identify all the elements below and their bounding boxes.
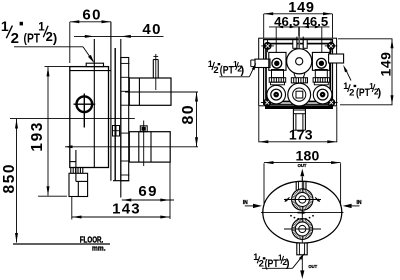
- svg-text:): ): [377, 87, 381, 99]
- svg-text:143: 143: [112, 200, 141, 217]
- leader to left inlet (top view): [219, 63, 256, 77]
- dimension 193 (body height): [29, 67, 70, 197]
- svg-text:180: 180: [296, 148, 320, 164]
- dimension 180: [264, 148, 341, 206]
- svg-text:1: 1: [208, 59, 213, 69]
- svg-text:1: 1: [343, 81, 348, 91]
- temperature pointer: [298, 211, 307, 215]
- front view vertical center line: [301, 177, 303, 256]
- upper knob limit stop left: [284, 197, 289, 202]
- top view body: [259, 38, 337, 106]
- svg-text:2: 2: [46, 29, 53, 44]
- wall anchor detail: [113, 126, 120, 137]
- left valve seat circle: [267, 85, 286, 104]
- mounting tab on body top: [86, 63, 103, 66]
- label IN right with arrow: [343, 200, 362, 208]
- upper outlet body (side view): [129, 78, 171, 105]
- label 1/2 inch PT (side view): [1, 18, 57, 47]
- label OUT (bottom): [308, 264, 317, 269]
- dimension 143: [72, 197, 170, 220]
- label 1/2 inch PT (front view): [253, 252, 290, 270]
- svg-text:40: 40: [142, 21, 162, 38]
- bottom pipe (front view): [297, 243, 307, 255]
- svg-text:OUT: OUT: [308, 264, 317, 269]
- dimension 40 (to wall face): [74, 21, 164, 38]
- corner screw bottom-right: [325, 96, 338, 109]
- upper outlet top pipe: [153, 60, 158, 79]
- label OUT (top): [298, 163, 307, 168]
- wall line (stud face): [114, 48, 116, 181]
- front view horizontal center line: [261, 212, 344, 214]
- svg-text:2: 2: [213, 65, 218, 76]
- lower outlet top pipe and plug: [140, 121, 147, 167]
- right inlet port circle: [317, 58, 327, 68]
- svg-text:2: 2: [349, 88, 354, 99]
- lower outlet body (side view): [129, 132, 170, 162]
- dimension 60 (body width): [70, 6, 111, 63]
- center mark (crosshair) on body: [74, 94, 96, 128]
- right inlet port block: [312, 52, 343, 70]
- svg-text:46.5: 46.5: [303, 14, 329, 29]
- svg-text:80: 80: [180, 104, 197, 125]
- leader to right inlet (top view): [343, 65, 351, 81]
- body bottom serrated connector: [71, 168, 83, 174]
- svg-text:1: 1: [1, 18, 9, 34]
- svg-text:(PT: (PT: [220, 64, 234, 76]
- escutcheon plate (side view): [113, 58, 130, 181]
- dimension 149 (right side): [338, 39, 394, 105]
- svg-text:): ): [240, 64, 244, 76]
- svg-text:60: 60: [82, 6, 102, 23]
- floor line and label: [13, 236, 110, 253]
- svg-text:850: 850: [1, 163, 18, 194]
- leader line to body top: [14, 47, 94, 63]
- escutcheon ellipse (front view): [263, 181, 342, 243]
- upper outlet pipe center line: [153, 54, 158, 90]
- svg-text:IN: IN: [243, 200, 248, 206]
- bottom outlet pipe (top view): [293, 106, 305, 130]
- svg-text:173: 173: [289, 127, 313, 143]
- right valve seat circle: [313, 85, 332, 104]
- svg-text:69: 69: [138, 183, 158, 200]
- top view bottom dark band: [265, 106, 333, 109]
- svg-text:46.5: 46.5: [274, 14, 300, 29]
- lower knob (front view): [284, 219, 321, 240]
- cartridge circle (top view): [287, 49, 312, 74]
- top inlet pipe (top view): [293, 27, 307, 50]
- label 1/2 inch PT (top view left): [208, 59, 245, 77]
- body center reference line: [10, 118, 135, 120]
- check-valve housing (bottom left box): [69, 150, 88, 197]
- corner screw top-right: [325, 40, 338, 53]
- upper outlet center line: [125, 91, 198, 93]
- valve body (side view): [70, 39, 111, 168]
- svg-text:149: 149: [378, 52, 394, 77]
- label 1/2 inch PT (top view right): [343, 81, 381, 99]
- left port neck and hex nut: [269, 70, 286, 85]
- svg-text:2: 2: [11, 30, 19, 47]
- right port neck and hex nut: [313, 70, 330, 85]
- leader to bottom outlet (front view): [262, 253, 305, 268]
- upper knob (front view): [284, 189, 321, 210]
- left inlet port block: [251, 52, 286, 70]
- svg-text:(PT: (PT: [356, 87, 370, 99]
- svg-text:mm.: mm.: [92, 243, 106, 252]
- wall finished-surface line: [120, 39, 122, 198]
- dimension 149 (top): [264, 0, 333, 38]
- wall line (rough-in): [110, 22, 112, 181]
- flow arrow out bottom: [300, 256, 304, 279]
- dimension 46.5 right: [302, 14, 328, 29]
- flow arrow out top: [300, 169, 304, 181]
- left inlet port circle: [272, 58, 282, 68]
- dimension 850 (height above floor): [1, 119, 18, 243]
- dimension 46.5 left: [269, 14, 330, 53]
- svg-text:193: 193: [29, 121, 46, 152]
- corner screw bottom-left: [261, 96, 274, 109]
- svg-text:2: 2: [259, 258, 264, 269]
- label IN left with arrow: [243, 200, 262, 208]
- lower outlet center line with arrow: [65, 145, 198, 148]
- top pipe (front view): [296, 181, 306, 190]
- svg-text:IN: IN: [357, 200, 362, 206]
- corner screw top-left: [261, 40, 274, 53]
- bottom outlet circle (top view): [288, 83, 311, 106]
- dimension 80 (outlet spacing): [180, 92, 198, 147]
- svg-text:OUT: OUT: [298, 163, 307, 168]
- svg-text:): ): [286, 257, 290, 269]
- dimension 69: [122, 162, 174, 219]
- svg-text:1: 1: [38, 22, 45, 34]
- dimension 173 (bottom of top view): [259, 107, 337, 144]
- upper knob limit stop right: [315, 197, 320, 202]
- temperature scale dots: [290, 215, 314, 220]
- svg-text:): ): [53, 31, 57, 46]
- cartridge stem and nut: [291, 73, 307, 83]
- svg-text:1: 1: [253, 252, 258, 262]
